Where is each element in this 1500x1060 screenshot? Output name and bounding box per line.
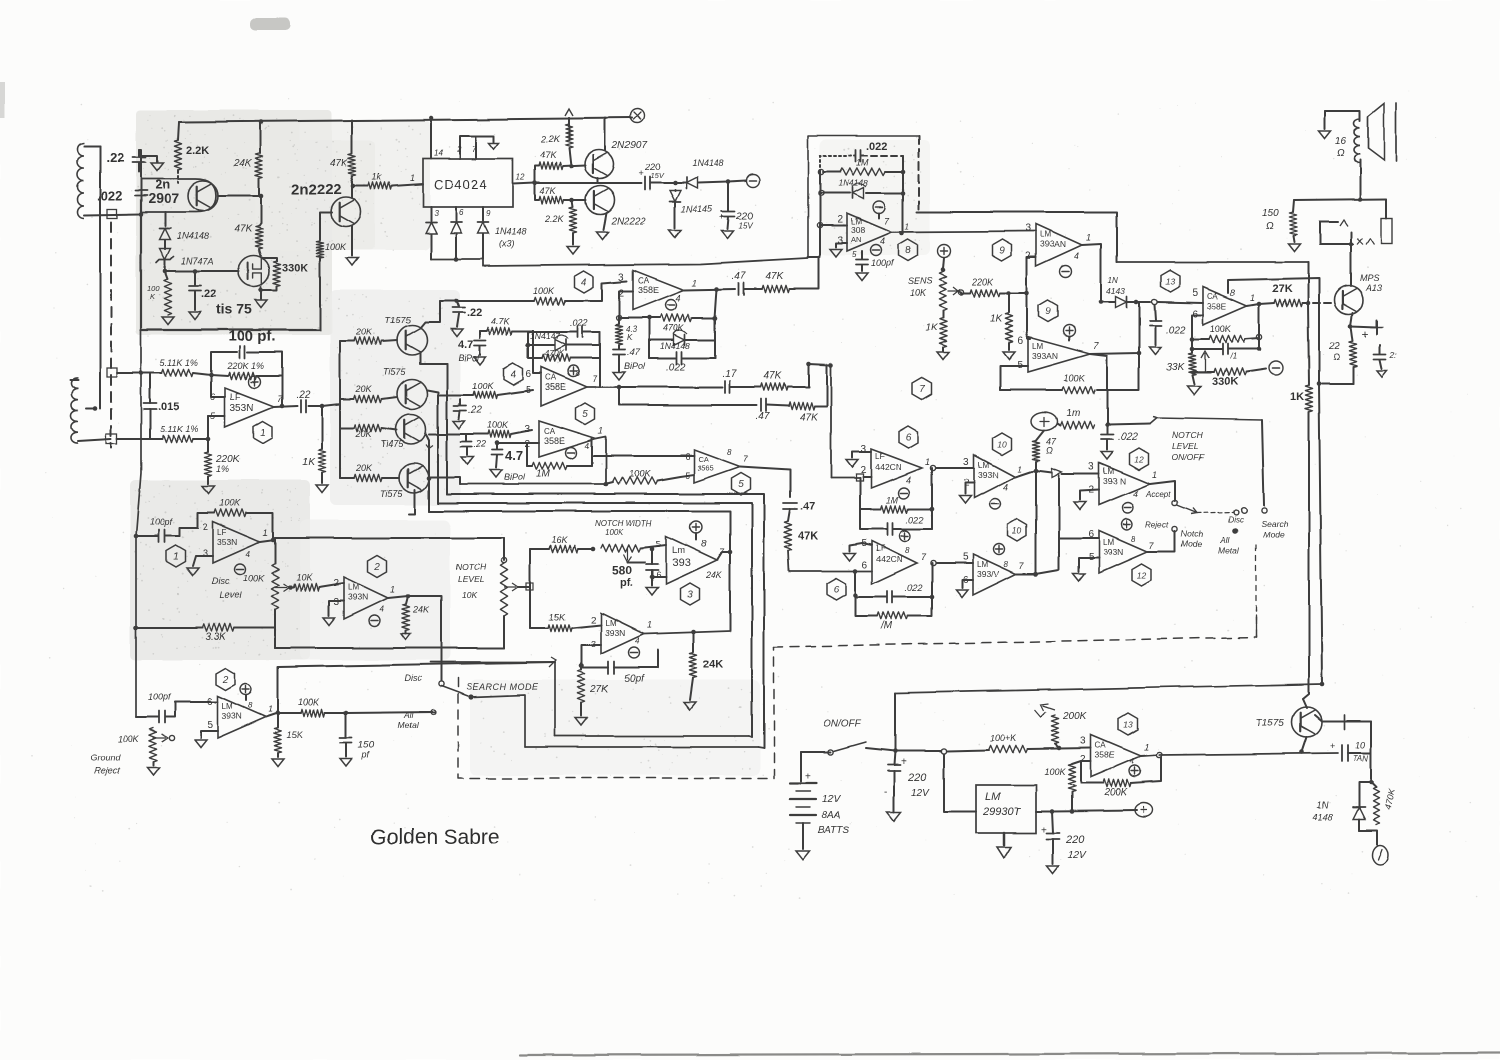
label U13b 358E — [1095, 750, 1115, 760]
label U10 393N — [978, 470, 998, 480]
svg-text:2: 2 — [591, 615, 596, 625]
label All Metal main — [398, 710, 420, 730]
label U1b 353N — [217, 537, 237, 547]
wire U13 out — [1247, 304, 1259, 306]
label 2.2K q2 — [544, 214, 565, 224]
ground bipol4 — [613, 372, 625, 380]
label U2 pin3 — [333, 597, 339, 608]
wire node down pin6 — [211, 375, 225, 397]
resistor 1K gnd — [318, 406, 325, 483]
label 10 TAN — [1353, 740, 1369, 763]
junction fet source — [259, 288, 264, 293]
label BiPol2 — [458, 353, 480, 363]
hex node 3a — [681, 583, 700, 605]
label 100K fb13 — [1210, 324, 1232, 334]
ground 15K 2b — [272, 759, 284, 767]
wire jack right up — [1385, 199, 1387, 218]
wire fb13 cap row — [1192, 337, 1259, 349]
svg-text:Ti575: Ti575 — [380, 489, 403, 499]
wire fb6 right — [908, 508, 932, 510]
label U6b pin8 — [905, 546, 910, 555]
zener 1N4145 — [670, 190, 681, 228]
label 1M U5 — [536, 469, 551, 480]
svg-text:5: 5 — [656, 539, 661, 549]
junction pin3 pw — [1057, 746, 1062, 751]
svg-text:4: 4 — [1130, 757, 1135, 766]
wire nw to 580 — [628, 561, 645, 563]
svg-text:.022: .022 — [905, 583, 923, 593]
svg-text:4: 4 — [906, 475, 911, 485]
svg-text:2907: 2907 — [148, 190, 179, 206]
svg-text:Ti475: Ti475 — [381, 439, 404, 449]
svg-text:220K: 220K — [971, 277, 994, 287]
svg-text:3: 3 — [687, 590, 693, 601]
svg-text:LF: LF — [875, 452, 884, 461]
label 220 15V b — [735, 211, 753, 230]
wire coil bottom lead — [1359, 160, 1361, 199]
label U13b CA — [1095, 741, 1107, 750]
wire 5.11K2 row to node — [193, 438, 208, 440]
contact disc main — [438, 681, 443, 686]
svg-text:1N: 1N — [1108, 276, 1118, 285]
hex node 4b — [504, 363, 523, 385]
label SENS — [908, 276, 933, 286]
svg-text:100K: 100K — [243, 573, 265, 583]
wire t3 collector right — [426, 434, 429, 440]
junction fb6b right — [930, 595, 935, 600]
svg-text:Reject: Reject — [1146, 521, 1169, 530]
label 100K U9b — [1064, 373, 1086, 383]
label Disc main — [404, 673, 422, 683]
op-amp U8 LM308AN — [847, 213, 892, 251]
wire U9b out down — [1090, 354, 1107, 425]
label Reject — [1146, 521, 1169, 530]
label 1N4148 fb8 — [838, 178, 868, 188]
hex node 9b — [1039, 300, 1058, 322]
svg-text:12: 12 — [1136, 571, 1146, 581]
label 100K y484 — [629, 469, 651, 479]
wire pin12 out — [513, 183, 535, 184]
svg-text:12V: 12V — [1068, 850, 1087, 861]
label 100 pf. — [228, 328, 276, 345]
wire top rail V+ — [179, 118, 632, 122]
wire y736 row — [555, 735, 749, 737]
wire x530 split — [529, 549, 531, 628]
potentiometer NOTCH LEVEL 10K — [500, 563, 518, 616]
svg-text:100pf: 100pf — [150, 517, 174, 527]
resistor 100K row2 — [473, 391, 497, 398]
wire pin2 row y364 — [809, 364, 830, 365]
label U13b pin1 — [1144, 742, 1149, 752]
svg-text:8: 8 — [1131, 535, 1136, 544]
svg-text:10K: 10K — [296, 572, 313, 582]
hex node 8 — [899, 239, 918, 261]
label U3b pin4 — [635, 637, 640, 646]
hex node 12b — [1132, 564, 1151, 586]
svg-text:6: 6 — [656, 570, 661, 580]
ground box big — [997, 847, 1011, 858]
transistor Ti575 t1 — [397, 325, 427, 355]
svg-text:/1: /1 — [1229, 352, 1237, 361]
wire fet source down — [260, 287, 262, 299]
resistor 5.11K 1% a — [162, 369, 193, 376]
wire x322 down to rows — [339, 404, 341, 478]
svg-text:MPS: MPS — [1360, 273, 1380, 283]
resistor 100K disc fb — [214, 509, 246, 516]
label 3.3K — [205, 632, 227, 643]
wire U3b pin3 — [581, 645, 601, 666]
wire 100Kq2 to rail — [319, 258, 321, 330]
wire U10 out — [1015, 470, 1036, 477]
wire t4 bottom down — [409, 490, 415, 514]
capacitor .022 fb2 — [528, 327, 600, 346]
label U1b pin4 — [246, 550, 251, 559]
svg-text:1N4148: 1N4148 — [838, 178, 868, 188]
label 1M U6b — [880, 621, 893, 632]
svg-text:+: + — [805, 771, 811, 782]
potentiometer 200K pw — [1041, 704, 1059, 748]
resistor 16K — [530, 545, 593, 552]
label .022 fb8 — [866, 141, 887, 153]
svg-text:1K: 1K — [990, 314, 1004, 325]
svg-text:24K: 24K — [703, 659, 723, 671]
label U5b pin5 — [685, 471, 690, 481]
junction 580 top — [650, 547, 655, 552]
svg-text:1N4148: 1N4148 — [660, 341, 690, 351]
label U13 3565 — [1207, 301, 1227, 311]
label U6b pin7 — [921, 552, 927, 562]
label 50pf — [624, 674, 645, 685]
ground U8 pin3 — [830, 249, 842, 257]
ground 24K col — [684, 702, 696, 710]
svg-text:393/V: 393/V — [977, 569, 1000, 579]
contact accept — [1172, 500, 1177, 505]
label U5 CA — [544, 427, 556, 436]
wire U2 pin3 gnd — [329, 601, 344, 616]
svg-text:1K: 1K — [1290, 391, 1304, 403]
ground coil — [1319, 131, 1331, 139]
label 1m notch — [1066, 408, 1080, 419]
svg-text:20K: 20K — [355, 384, 373, 394]
shaded region mid disc — [300, 520, 450, 660]
svg-text:8: 8 — [1004, 560, 1009, 569]
wire out rail y753 — [1159, 753, 1338, 755]
ground battery — [796, 851, 810, 860]
ground U6 pin3 — [846, 460, 858, 468]
label U12a LM — [1103, 467, 1114, 476]
svg-text:5.11K 1%: 5.11K 1% — [160, 358, 198, 368]
junction Q2 base node — [351, 184, 356, 189]
ground 2.2K q2 — [567, 247, 579, 255]
junction coil bottom — [1358, 197, 1363, 202]
wire fb6b 022 — [855, 571, 932, 597]
label U10b pin6 — [962, 575, 968, 586]
wire 27K to base — [1302, 302, 1335, 304]
label U5 pin1 — [598, 426, 603, 436]
svg-text:100K: 100K — [1210, 324, 1232, 334]
wire fb6b vert — [931, 563, 933, 597]
op-amp U10 LM393N — [974, 455, 1015, 498]
wire base rail — [140, 156, 142, 214]
svg-text:.022: .022 — [1166, 325, 1186, 336]
svg-text:+: + — [1330, 741, 1335, 751]
label 1K gnd — [303, 457, 317, 468]
junction q2 base — [570, 198, 575, 203]
capacitor .47 bipol4 — [613, 345, 625, 371]
wire blade to disc — [1197, 512, 1233, 513]
junction 220K right b — [1025, 291, 1030, 296]
svg-text:16: 16 — [1335, 136, 1347, 147]
potentiometer notch width — [601, 544, 641, 562]
resistor 100K out2b — [278, 709, 346, 716]
wire U9b plus stub — [1068, 337, 1070, 341]
junction 2.2K base — [569, 164, 574, 169]
op-amp U5 CA358E — [539, 421, 596, 457]
label 150 ohm — [1262, 208, 1279, 232]
label U5b pin8 — [727, 448, 732, 457]
label ONOFF — [823, 719, 862, 730]
label U1 353N — [230, 403, 254, 414]
wire U5b out — [740, 467, 790, 497]
junction pin2 cap — [495, 441, 527, 446]
junction U3 out bus — [728, 550, 733, 555]
wire U13b out — [1141, 755, 1156, 756]
svg-text:2: 2 — [1025, 251, 1031, 262]
junction 100K pw bot — [1070, 809, 1075, 814]
label 100K row2 — [472, 381, 494, 391]
svg-text:47K: 47K — [764, 371, 783, 382]
capacitor .22 row2 — [454, 399, 466, 419]
wire x1319 down — [1319, 384, 1322, 684]
junction fb4 right — [713, 316, 718, 321]
svg-text:100K: 100K — [118, 734, 140, 744]
svg-text:.22: .22 — [468, 405, 482, 416]
circle minus U6 — [899, 488, 910, 499]
svg-text:27K: 27K — [589, 684, 609, 695]
svg-text:29930T: 29930T — [982, 806, 1022, 818]
resistor 4.7K row2 — [480, 327, 533, 334]
label 330K — [282, 262, 308, 274]
label Notch Mode sw — [1181, 529, 1203, 549]
hex node 6b — [827, 578, 846, 600]
label U9b pin6 — [1017, 336, 1023, 347]
op-amp U3b LM393N — [601, 613, 644, 654]
wire Q1 collector right — [218, 195, 261, 197]
capacitor 580pf — [646, 549, 658, 577]
label 200K fb pw — [1103, 787, 1129, 798]
wire U12a pin2 gnd — [1080, 490, 1099, 500]
wire U4b pin6 up — [533, 331, 541, 373]
label U10b pin8 — [1004, 560, 1009, 569]
label U12a pin3 — [1088, 462, 1094, 473]
label U8 pin2 — [837, 214, 843, 225]
svg-text:16K: 16K — [551, 535, 568, 545]
wire pins 2 7 bracket — [460, 136, 494, 159]
diode d3a — [426, 223, 437, 260]
wire square to 5.11K — [117, 372, 162, 374]
svg-text:T1575: T1575 — [1256, 718, 1285, 729]
svg-text:100K: 100K — [1064, 373, 1086, 383]
junction gr wiper — [169, 735, 174, 740]
capacitor 220 out — [645, 177, 650, 190]
label U3b pin1 — [647, 620, 652, 630]
svg-text:.47: .47 — [732, 271, 746, 282]
svg-text:15V: 15V — [650, 171, 664, 180]
svg-text:10: 10 — [997, 440, 1007, 450]
svg-text:1N4148: 1N4148 — [177, 231, 209, 241]
junction cap13 l — [1190, 347, 1195, 352]
svg-text:24K: 24K — [705, 570, 723, 580]
capacitor .47 row1 — [739, 283, 744, 295]
svg-text:.17: .17 — [722, 369, 736, 380]
label U9 LM — [1040, 230, 1051, 239]
svg-text:5: 5 — [1192, 288, 1198, 299]
label U2 pin1 — [390, 584, 395, 594]
label 100K row4 — [487, 420, 509, 430]
svg-text:3565: 3565 — [697, 464, 714, 473]
svg-text:.022: .022 — [666, 362, 686, 373]
ground gr pot — [147, 768, 159, 776]
label 10K nl — [462, 590, 477, 600]
label 27K out13 — [1272, 283, 1292, 295]
label pin2 — [456, 145, 462, 154]
svg-text:BATTS: BATTS — [818, 825, 850, 836]
junction out term — [726, 180, 731, 185]
junction x831 — [829, 363, 834, 368]
resistor 15K 2b — [274, 713, 281, 757]
label .015 — [158, 401, 179, 413]
wire 24K col down — [690, 678, 693, 700]
resistor 1M U6b — [855, 597, 932, 620]
diode 1N4148 out2 — [1353, 787, 1365, 830]
svg-text:6: 6 — [861, 560, 867, 571]
label U10 pin3 — [963, 457, 969, 468]
svg-text:NOTCH: NOTCH — [456, 562, 487, 572]
label U13b pin3 — [1080, 736, 1086, 747]
junction pin6 U6b — [853, 569, 858, 574]
svg-text:1: 1 — [692, 278, 697, 288]
svg-text:100K: 100K — [629, 469, 651, 479]
resistor 1K div — [1005, 293, 1012, 350]
junction x530 wiper — [526, 583, 533, 590]
circle plus U4b — [568, 366, 579, 377]
capacitor 100pf low — [136, 702, 218, 723]
wire left rail down — [99, 146, 101, 409]
wire loop bottom — [1359, 830, 1377, 845]
wire in row y478 — [831, 477, 860, 479]
svg-text:Ω: Ω — [1046, 445, 1053, 455]
diode d3b — [451, 223, 462, 260]
wire fb13 up — [1258, 304, 1260, 337]
label pin7 — [472, 145, 477, 154]
label 4.7 bipol2 — [458, 339, 473, 351]
terminal X supply — [630, 109, 644, 123]
wire U12b out — [1147, 532, 1175, 552]
label U13 pin1 — [1250, 293, 1255, 303]
svg-text:3.3K: 3.3K — [205, 632, 227, 643]
contact disc3 — [1241, 507, 1247, 513]
wire coil L1 bottom lead — [84, 214, 141, 215]
svg-text:1M: 1M — [856, 158, 869, 168]
svg-text:2: 2 — [203, 522, 208, 532]
svg-text:.022: .022 — [866, 141, 887, 153]
wire x535 up 47K — [535, 166, 539, 183]
wire arrow 2.2K top — [565, 109, 573, 140]
svg-text:5: 5 — [852, 250, 857, 259]
svg-text:BiPol: BiPol — [504, 472, 526, 482]
wire to CA13 in — [1136, 301, 1150, 303]
label 100K out2b — [298, 697, 320, 707]
label 20K t2 — [355, 384, 373, 394]
svg-text:358E: 358E — [1095, 750, 1115, 760]
label All Metal sw — [1218, 535, 1240, 555]
label 2 right — [1389, 351, 1397, 360]
wire x555 down — [554, 662, 556, 736]
fet tis75 — [239, 256, 270, 287]
junction U2 out — [406, 594, 411, 599]
svg-text:4: 4 — [880, 236, 885, 246]
label U10 LM — [978, 461, 989, 470]
junction fb13 right — [1256, 334, 1261, 339]
label 2.2K — [186, 145, 209, 157]
svg-text:1: 1 — [1144, 742, 1149, 752]
wire U1 out — [274, 406, 297, 407]
svg-text:393N: 393N — [348, 592, 368, 602]
wire 47K2 to base — [564, 199, 586, 201]
svg-text:100K: 100K — [219, 498, 241, 508]
label U1b pin1 — [263, 528, 268, 538]
svg-text:A13: A13 — [1365, 283, 1382, 293]
label U10b 393N — [977, 569, 1000, 579]
label U2b LM — [222, 702, 233, 711]
label Disc sw — [1228, 515, 1244, 524]
op-amp U2 LM393N — [344, 577, 388, 619]
op-amp U13 CA3565 — [1203, 287, 1247, 325]
diode 1N4143 — [1101, 297, 1136, 308]
svg-text:47K: 47K — [798, 530, 818, 542]
svg-text:LM: LM — [977, 560, 988, 569]
svg-text:22: 22 — [1328, 341, 1341, 352]
svg-text:12: 12 — [1134, 455, 1144, 465]
label 1K right — [1290, 391, 1304, 403]
svg-text:+: + — [1362, 327, 1369, 341]
wire nw right to pin5 — [641, 545, 666, 548]
switch notch level — [1150, 417, 1262, 424]
ground top hook — [151, 163, 163, 171]
label U4 pin3 — [618, 272, 624, 283]
svg-text:4.7: 4.7 — [505, 448, 523, 463]
resistor 47K r3 — [348, 153, 355, 186]
wire U6 out row — [936, 467, 974, 469]
svg-text:4: 4 — [380, 605, 385, 614]
label 20K t4 — [355, 463, 373, 473]
transistor 2N2222 Q4 — [586, 186, 615, 215]
ground fet — [255, 300, 267, 308]
svg-text:8: 8 — [727, 448, 732, 457]
wire power rail top — [895, 684, 1322, 693]
wire coil L2 top lead — [70, 379, 78, 381]
diode d3c — [478, 223, 489, 260]
resistor 24K col — [689, 632, 696, 678]
svg-text:33K: 33K — [1166, 362, 1185, 373]
label SEARCH MODE — [466, 682, 539, 692]
svg-text:7: 7 — [472, 145, 477, 154]
transistor 2N2907 Q3 — [585, 150, 614, 179]
wire 100pf to pin2 — [180, 528, 198, 536]
label Accept — [1145, 490, 1171, 499]
wire .47 to 47K row1 — [744, 288, 762, 290]
label REJECT — [94, 766, 120, 776]
